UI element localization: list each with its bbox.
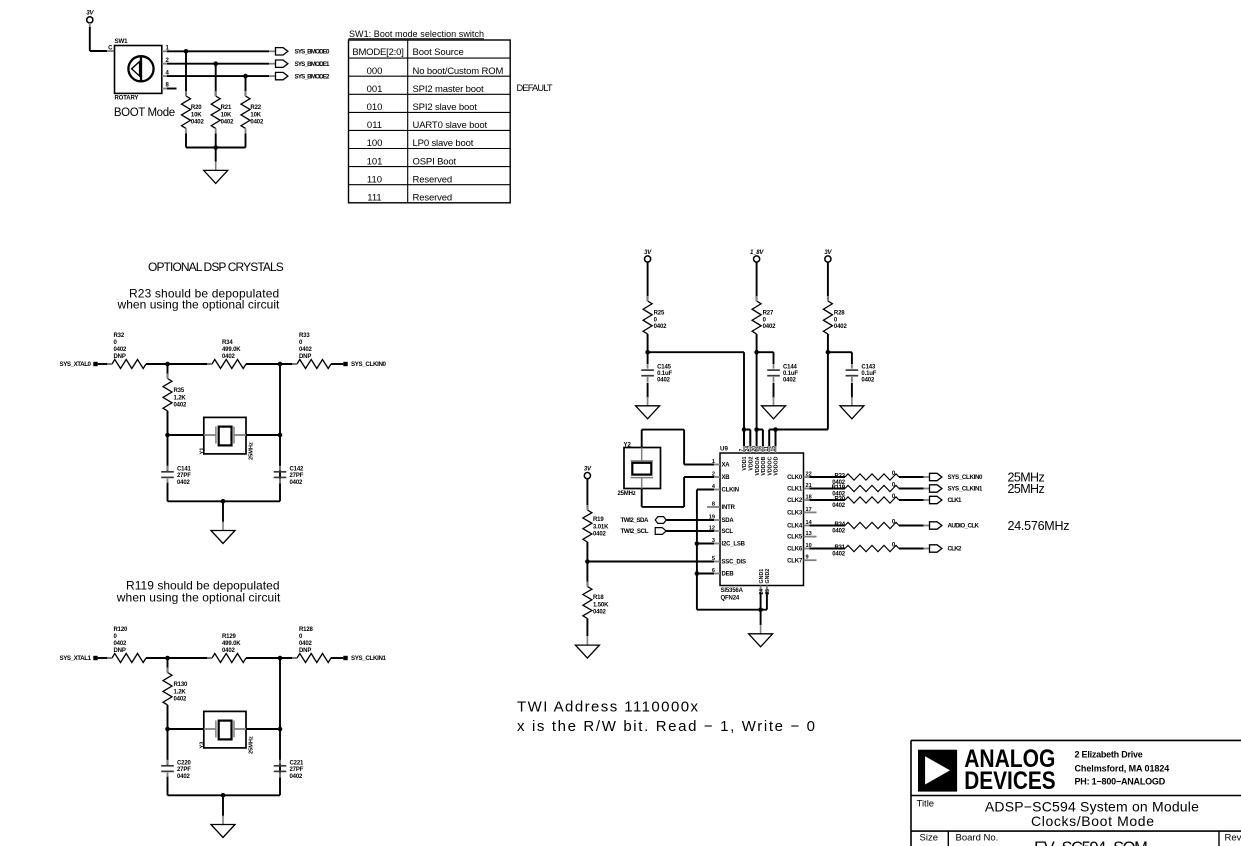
svg-text:VDDOA: VDDOA <box>755 456 761 475</box>
svg-text:011: 011 <box>367 120 382 131</box>
svg-text:UART0 slave boot: UART0 slave boot <box>413 120 488 131</box>
svg-text:CLK6: CLK6 <box>787 547 803 553</box>
svg-text:DNP: DNP <box>299 354 311 360</box>
svg-text:25MHz: 25MHz <box>1008 482 1045 496</box>
svg-text:SYS_XTAL1: SYS_XTAL1 <box>60 655 92 662</box>
svg-text:C220: C220 <box>177 760 192 766</box>
svg-text:XB: XB <box>722 475 731 481</box>
svg-text:XA: XA <box>722 463 731 469</box>
svg-text:0402: 0402 <box>174 403 188 409</box>
svg-text:2 Elizabeth Drive: 2 Elizabeth Drive <box>1075 750 1143 760</box>
svg-text:SPI2 master boot: SPI2 master boot <box>413 84 485 95</box>
svg-text:R33: R33 <box>299 333 310 339</box>
svg-text:0402: 0402 <box>832 552 846 558</box>
svg-text:14: 14 <box>806 520 813 526</box>
svg-text:C221: C221 <box>290 760 305 766</box>
svg-text:VDD1: VDD1 <box>742 456 748 470</box>
svg-text:0402: 0402 <box>114 641 128 647</box>
svg-text:0402: 0402 <box>191 120 205 126</box>
svg-text:Clocks/Boot Mode: Clocks/Boot Mode <box>1031 813 1154 829</box>
svg-text:0402: 0402 <box>290 774 304 780</box>
svg-text:0402: 0402 <box>834 324 848 330</box>
svg-text:U9: U9 <box>720 446 728 453</box>
svg-text:INTR: INTR <box>722 505 736 511</box>
svg-text:x is the R/W bit. Read − 1, W: x is the R/W bit. Read − 1, Write − 0 <box>517 718 815 735</box>
svg-text:CLK1: CLK1 <box>787 487 803 493</box>
svg-text:1_8V: 1_8V <box>750 250 764 256</box>
svg-text:0402: 0402 <box>290 480 304 486</box>
svg-text:SW1: SW1 <box>115 38 129 45</box>
svg-text:CLK7: CLK7 <box>787 558 803 564</box>
svg-text:DEB: DEB <box>722 572 735 578</box>
svg-text:SSC_DIS: SSC_DIS <box>722 560 746 566</box>
svg-text:SI5356A: SI5356A <box>721 588 744 594</box>
svg-text:SCL: SCL <box>722 529 734 535</box>
svg-text:10K: 10K <box>221 112 232 118</box>
svg-text:SYS_BMODE1: SYS_BMODE1 <box>295 61 331 68</box>
svg-text:17: 17 <box>806 507 812 513</box>
svg-text:DNP: DNP <box>114 354 126 360</box>
svg-text:16: 16 <box>758 446 764 452</box>
svg-text:VDDOC: VDDOC <box>767 456 773 475</box>
svg-text:25: 25 <box>765 589 771 595</box>
svg-text:TWI2_SCL: TWI2_SCL <box>621 528 649 535</box>
svg-text:0402: 0402 <box>654 324 668 330</box>
svg-text:25MHz: 25MHz <box>618 491 636 497</box>
svg-text:15: 15 <box>770 446 776 452</box>
svg-text:Boot Source: Boot Source <box>413 47 464 58</box>
svg-text:I2C_LSB: I2C_LSB <box>722 542 746 548</box>
svg-text:3.01K: 3.01K <box>593 524 609 530</box>
svg-text:R30: R30 <box>834 497 845 503</box>
svg-text:9: 9 <box>806 555 809 561</box>
svg-text:GND1: GND1 <box>759 569 765 584</box>
svg-text:SYS_CLKIN1: SYS_CLKIN1 <box>351 655 387 662</box>
svg-text:20: 20 <box>751 446 757 452</box>
svg-text:010: 010 <box>367 102 383 113</box>
svg-text:0402: 0402 <box>763 324 777 330</box>
svg-text:QFN24: QFN24 <box>721 596 740 602</box>
svg-text:101: 101 <box>367 156 383 167</box>
svg-text:0402: 0402 <box>221 120 235 126</box>
svg-text:ROTARY: ROTARY <box>115 96 139 102</box>
svg-text:R23: R23 <box>834 474 845 480</box>
svg-text:22: 22 <box>806 472 812 478</box>
svg-text:CLK5: CLK5 <box>787 535 803 541</box>
svg-text:DEFAULT: DEFAULT <box>517 83 553 93</box>
svg-text:No boot/Custom ROM: No boot/Custom ROM <box>413 66 504 77</box>
svg-text:VDD2: VDD2 <box>749 456 755 470</box>
svg-text:Size: Size <box>920 833 938 844</box>
svg-text:0402: 0402 <box>174 697 188 703</box>
svg-text:10K: 10K <box>191 112 202 118</box>
svg-text:R28: R28 <box>834 311 845 317</box>
svg-text:SYS_BMODE0: SYS_BMODE0 <box>295 49 331 56</box>
svg-text:25MHz: 25MHz <box>249 736 255 754</box>
svg-text:EV−SC594−SOM: EV−SC594−SOM <box>1034 839 1148 846</box>
svg-text:7: 7 <box>739 449 745 452</box>
svg-text:Reserved: Reserved <box>413 193 452 204</box>
svg-text:18: 18 <box>806 495 812 501</box>
svg-text:C: C <box>108 46 113 52</box>
svg-text:Rev: Rev <box>1225 833 1241 844</box>
svg-text:1.2K: 1.2K <box>174 395 187 401</box>
svg-text:0402: 0402 <box>593 532 607 538</box>
svg-text:13: 13 <box>806 531 812 537</box>
svg-text:100: 100 <box>367 138 383 149</box>
svg-text:27PF: 27PF <box>177 473 191 479</box>
svg-text:BMODE[2:0]: BMODE[2:0] <box>352 47 403 58</box>
svg-text:27PF: 27PF <box>177 767 191 773</box>
svg-text:R34: R34 <box>222 340 233 346</box>
svg-text:111: 111 <box>367 193 381 204</box>
svg-text:CLKIN: CLKIN <box>722 488 739 494</box>
svg-text:0.1uF: 0.1uF <box>861 371 876 377</box>
svg-text:CLK1: CLK1 <box>948 497 963 504</box>
svg-text:0402: 0402 <box>657 378 671 384</box>
svg-text:10: 10 <box>806 543 812 549</box>
svg-text:0.1uF: 0.1uF <box>783 371 798 377</box>
svg-text:R129: R129 <box>222 634 237 640</box>
svg-text:R18: R18 <box>593 595 604 601</box>
svg-text:TWI Address 1110000x: TWI Address 1110000x <box>517 699 699 716</box>
svg-text:R24: R24 <box>834 522 845 528</box>
svg-text:DEVICES: DEVICES <box>964 766 1055 794</box>
svg-text:000: 000 <box>367 66 383 77</box>
svg-text:24: 24 <box>759 589 765 595</box>
svg-text:SPI2 slave boot: SPI2 slave boot <box>413 102 478 113</box>
svg-text:R32: R32 <box>114 333 125 339</box>
svg-text:24.576MHz: 24.576MHz <box>1008 519 1070 533</box>
svg-text:0402: 0402 <box>299 347 313 353</box>
svg-text:TWI2_SDA: TWI2_SDA <box>621 517 650 524</box>
svg-text:SYS_BMODE2: SYS_BMODE2 <box>295 73 331 80</box>
svg-text:Chelmsford, MA 01824: Chelmsford, MA 01824 <box>1075 763 1170 773</box>
svg-text:001: 001 <box>367 84 383 95</box>
svg-text:R25: R25 <box>654 311 665 317</box>
svg-text:1.2K: 1.2K <box>174 689 187 695</box>
svg-text:0402: 0402 <box>222 354 236 360</box>
svg-text:R21: R21 <box>221 105 232 111</box>
svg-text:R130: R130 <box>174 682 189 688</box>
svg-text:C144: C144 <box>783 365 798 371</box>
svg-text:Title: Title <box>917 799 935 810</box>
svg-text:when using the optional circui: when using the optional circuit <box>117 297 281 311</box>
svg-text:499.0K: 499.0K <box>222 641 241 647</box>
svg-text:PH: 1−800−ANALOGD: PH: 1−800−ANALOGD <box>1075 777 1166 787</box>
svg-text:BOOT Mode: BOOT Mode <box>114 107 175 119</box>
svg-text:0402: 0402 <box>299 641 313 647</box>
svg-text:SDA: SDA <box>722 518 735 524</box>
svg-text:R31: R31 <box>834 545 845 551</box>
svg-text:OPTIONAL DSP CRYSTALS: OPTIONAL DSP CRYSTALS <box>148 260 284 274</box>
svg-text:SYS_CLKIN0: SYS_CLKIN0 <box>351 361 387 368</box>
svg-text:110: 110 <box>367 174 382 185</box>
svg-text:25MHz: 25MHz <box>249 442 255 460</box>
svg-text:0402: 0402 <box>114 347 128 353</box>
svg-text:GND2: GND2 <box>765 569 771 584</box>
svg-text:0402: 0402 <box>593 610 607 616</box>
svg-text:CLK2: CLK2 <box>948 546 963 553</box>
svg-text:R20: R20 <box>191 105 202 111</box>
svg-text:R19: R19 <box>593 517 604 523</box>
svg-text:27PF: 27PF <box>290 473 304 479</box>
svg-text:Y2: Y2 <box>624 442 632 448</box>
svg-text:10K: 10K <box>250 112 261 118</box>
svg-text:3V: 3V <box>824 250 832 256</box>
svg-text:0402: 0402 <box>177 774 191 780</box>
svg-text:0402: 0402 <box>177 480 191 486</box>
svg-text:0402: 0402 <box>222 648 236 654</box>
svg-text:C145: C145 <box>657 365 672 371</box>
svg-text:Y1: Y1 <box>200 448 206 455</box>
svg-text:R119: R119 <box>832 485 846 491</box>
svg-text:C141: C141 <box>177 466 192 472</box>
svg-text:27PF: 27PF <box>290 767 304 773</box>
svg-text:0402: 0402 <box>783 378 797 384</box>
svg-text:3V: 3V <box>584 466 592 472</box>
svg-text:VDDOB: VDDOB <box>761 456 767 475</box>
svg-text:R22: R22 <box>250 105 261 111</box>
svg-text:DNP: DNP <box>299 648 311 654</box>
svg-text:24: 24 <box>745 446 751 452</box>
svg-text:R35: R35 <box>174 388 185 394</box>
svg-text:CLK3: CLK3 <box>787 511 803 517</box>
svg-text:CLK0: CLK0 <box>787 475 803 481</box>
svg-text:when using the optional circui: when using the optional circuit <box>116 591 281 605</box>
svg-text:R120: R120 <box>114 627 129 633</box>
svg-text:21: 21 <box>806 483 812 489</box>
svg-text:8: 8 <box>712 502 715 508</box>
svg-text:VDDOD: VDDOD <box>774 456 780 475</box>
svg-text:SYS_XTAL0: SYS_XTAL0 <box>60 361 92 368</box>
svg-text:SW1: Boot mode selection switc: SW1: Boot mode selection switch <box>349 29 484 39</box>
svg-text:Board No.: Board No. <box>956 833 999 844</box>
svg-text:CLK2: CLK2 <box>787 498 803 504</box>
svg-text:C143: C143 <box>861 365 876 371</box>
svg-text:C142: C142 <box>290 466 305 472</box>
svg-text:499.0K: 499.0K <box>222 347 241 353</box>
svg-text:DNP: DNP <box>114 648 126 654</box>
svg-text:3V: 3V <box>86 11 94 17</box>
svg-text:SYS_CLKIN1: SYS_CLKIN1 <box>948 486 984 493</box>
svg-text:Reserved: Reserved <box>413 174 452 185</box>
svg-text:1.50K: 1.50K <box>593 602 609 608</box>
svg-text:R27: R27 <box>763 311 774 317</box>
svg-text:0402: 0402 <box>250 120 264 126</box>
svg-text:11: 11 <box>764 446 770 452</box>
svg-text:R128: R128 <box>299 627 314 633</box>
svg-text:0.1uF: 0.1uF <box>657 371 672 377</box>
svg-text:OSPI Boot: OSPI Boot <box>413 156 457 167</box>
svg-text:SYS_CLKIN0: SYS_CLKIN0 <box>948 474 984 481</box>
svg-text:0402: 0402 <box>832 503 846 509</box>
svg-text:3V: 3V <box>644 250 652 256</box>
svg-text:0402: 0402 <box>832 529 846 535</box>
svg-text:AUDIO_CLK: AUDIO_CLK <box>948 523 980 530</box>
svg-text:CLK4: CLK4 <box>787 524 803 530</box>
svg-text:LP0 slave boot: LP0 slave boot <box>413 138 474 149</box>
svg-text:0402: 0402 <box>861 378 875 384</box>
svg-text:Y3: Y3 <box>200 742 206 749</box>
